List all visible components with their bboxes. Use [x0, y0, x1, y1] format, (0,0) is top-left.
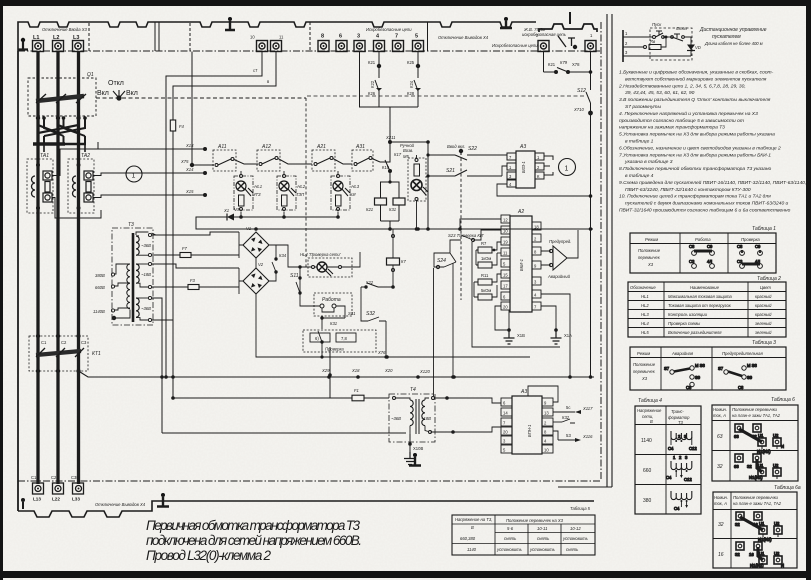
SECTION: disconnect contacts KT1 on buses [29, 334, 594, 377]
svg-text:5кОм: 5кОм [481, 288, 491, 293]
A2 body [510, 216, 532, 312]
svg-text:14: 14 [503, 411, 508, 416]
wire from terminal 3 down [360, 52, 419, 108]
svg-text:32: 32 [735, 522, 740, 527]
T3 secondary winding w1 [136, 236, 139, 255]
svg-text:Наименование: Наименование [690, 285, 720, 290]
svg-text:Х78: Х78 [572, 62, 580, 67]
svg-text:С8: С8 [737, 244, 743, 249]
divider x=310 [309, 22, 311, 51]
svg-text:~36В: ~36В [141, 243, 151, 248]
switch S11 [296, 278, 300, 293]
svg-text:L22: L22 [52, 497, 60, 502]
svg-text:16: 16 [753, 522, 758, 527]
A3 right pins [535, 153, 544, 160]
junction bar to TA row [33, 142, 65, 146]
enclosure top edge with comb notches [18, 22, 536, 51]
node circle 1 right [559, 159, 576, 176]
crossover wiring below Q1 [38, 116, 79, 142]
svg-text:19: 19 [503, 240, 508, 245]
wire rc-1 [623, 37, 691, 56]
branch verticals with swap [44, 118, 85, 136]
svg-text:5З: 5З [566, 433, 571, 438]
TA secondary wires to X13 X14 X15 [52, 142, 205, 218]
svg-text:Предупредительная: Предупредительная [722, 351, 763, 356]
svg-text:~36В: ~36В [391, 416, 401, 421]
svg-text:А11: А11 [217, 144, 227, 150]
resistor R HL2 [282, 195, 288, 206]
svg-text:Х1В: Х1В [517, 333, 525, 338]
unit A11 dashed box [213, 150, 236, 171]
divider dashed x=89 [88, 23, 90, 51]
svg-text:С1В: С1В [31, 475, 39, 480]
LED HL2 [279, 181, 289, 191]
svg-text:32: 32 [752, 434, 757, 439]
svg-text:10-12: 10-12 [570, 526, 581, 531]
lamp HL1 dash-dot box [234, 176, 253, 210]
SECTION: remote control circuit top right [623, 28, 695, 62]
svg-text:Х1: Х1 [223, 208, 229, 213]
terminal L13 [33, 483, 44, 494]
svg-text:Номин.: Номин. [713, 407, 727, 412]
svg-text:HL2: HL2 [641, 303, 649, 308]
T4 primary coil [393, 397, 396, 400]
table6 row 63 jumper sketch [734, 424, 784, 454]
svg-text:63: 63 [734, 434, 739, 439]
svg-text:С12: С12 [684, 477, 692, 482]
svg-text:L2: L2 [53, 35, 59, 41]
alarm output triangle [553, 246, 567, 270]
svg-text:Максимальная токовая защита: Максимальная токовая защита [668, 294, 732, 299]
bridge input wires [239, 232, 243, 255]
svg-text:Проверка схемы: Проверка схемы [668, 321, 700, 326]
svg-text:S7: S7 [664, 366, 670, 371]
wire from bus3 to long bus [79, 371, 595, 377]
A2 right wires to triangle [541, 251, 551, 265]
svg-text:Х15: Х15 [185, 189, 194, 194]
wire y=432 long [162, 432, 406, 434]
svg-text:HL5: HL5 [641, 330, 649, 335]
svg-text:красный: красный [755, 303, 772, 308]
svg-text:L13: L13 [33, 497, 41, 502]
wire w2 top [152, 264, 239, 268]
SECTION: bottom-left cable entry [18, 14, 612, 517]
lamp HL2 dash-dot box [277, 176, 296, 210]
svg-text:Х120: Х120 [419, 369, 430, 374]
svg-text:на план-е зажи ТА1, ТА2: на план-е зажи ТА1, ТА2 [733, 501, 782, 506]
A31 contact [354, 163, 357, 166]
A3 body [516, 151, 535, 188]
output wire from bridges to right [256, 226, 300, 245]
SECTION: relay K7 and contacts right [355, 229, 400, 347]
svg-text:U1: U1 [759, 521, 765, 526]
svg-text:20: 20 [503, 305, 508, 310]
cabinet bottom dash-dot wall [18, 480, 601, 482]
svg-text:С3В: С3В [71, 475, 79, 480]
transformer T4 dashed box [389, 394, 435, 442]
svg-text:Проверка: Проверка [325, 347, 344, 352]
svg-text:К32: К32 [562, 415, 570, 420]
wires A3 right to node 1 [544, 156, 553, 175]
svg-text:Дистанционное управление: Дистанционное управление [699, 27, 767, 33]
SECTION: indicator lamps HL1-HL3 [196, 171, 593, 231]
A3b right pins [542, 398, 553, 453]
svg-text:В: В [650, 419, 653, 424]
svg-text:20: 20 [503, 430, 508, 435]
svg-text:R7: R7 [481, 241, 487, 246]
SECTION: auxiliary circuit terminals 10 11 [164, 41, 281, 400]
A2 right pin boxes [532, 222, 541, 310]
hanger symbol top right-middle [500, 17, 512, 28]
svg-text:К34: К34 [279, 253, 287, 258]
resistor pair lower [478, 279, 492, 285]
bus L3 wire [77, 52, 80, 485]
SECTION: signal lamp M5 and switches S21 S22 [390, 140, 507, 300]
SECTION: long horizontal buses [327, 375, 456, 379]
svg-text:пускателем: пускателем [712, 34, 741, 40]
svg-text:1кОм: 1кОм [481, 256, 491, 261]
hanger on dashdot wall [409, 453, 421, 466]
svg-text:Транс-: Транс- [671, 409, 684, 414]
ground-lug symbol left [19, 38, 29, 50]
svg-text:F7: F7 [182, 246, 188, 251]
svg-text:Режим: Режим [637, 351, 650, 356]
terminal L33 [73, 483, 84, 494]
svg-text:11: 11 [279, 35, 284, 40]
svg-text:К31: К31 [389, 207, 396, 212]
bridge outputs [255, 258, 257, 268]
wire w3 top [152, 292, 239, 298]
wire w1 bottom through fuse F7 [152, 254, 180, 256]
enclosure bottom comb strip [18, 501, 594, 517]
svg-text:М S8: М S8 [695, 363, 705, 368]
LED HL4 [317, 262, 327, 272]
svg-text:Отключение Выводов Х4: Отключение Выводов Х4 [438, 35, 489, 40]
svg-text:6.Обозначение, назначение и цв: 6.Обозначение, назначение и цвет светоди… [619, 145, 781, 151]
svg-text:Аварийный: Аварийный [547, 274, 571, 279]
svg-text:Положение: Положение [633, 362, 656, 367]
SECTION: right side feeder wire [307, 52, 593, 379]
svg-text:Пуск: Пуск [652, 22, 662, 27]
svg-text:7.Установка перемычек на Х3 дл: 7.Установка перемычек на Х3 для выбора р… [619, 152, 771, 158]
svg-text:Х18: Х18 [351, 368, 360, 373]
svg-text:-HL1: -HL1 [253, 184, 262, 189]
Q1 moving contact bar [36, 96, 84, 101]
wire X75 feed [192, 52, 214, 166]
wire y=398 from left [330, 347, 352, 398]
svg-text:Таблица 5: Таблица 5 [570, 506, 591, 511]
Q1 linkage dash line to handle [96, 97, 306, 99]
svg-text:S7 разомкнуты: S7 разомкнуты [625, 104, 661, 110]
SECTION: check circuit HL4 [256, 242, 560, 396]
wire from S21 area down right side [389, 229, 393, 287]
svg-text:Х710: Х710 [573, 107, 584, 112]
svg-text:Отключение Ввода Х3: Отключение Ввода Х3 [42, 27, 87, 32]
svg-text:380: 380 [643, 498, 652, 504]
svg-text:Х14: Х14 [185, 167, 194, 172]
svg-text:16: 16 [718, 552, 724, 558]
button Пуск [653, 36, 656, 39]
svg-text:5.Установка перемычек на Х3 дл: 5.Установка перемычек на Х3 для выбора р… [619, 132, 775, 138]
wire from left bottom bus to T4 [173, 397, 352, 399]
svg-text:Аварийная: Аварийная [671, 351, 694, 356]
svg-text:К22: К22 [366, 280, 374, 285]
svg-text:Q1: Q1 [87, 72, 94, 78]
TA2 primary coil [73, 176, 77, 197]
svg-text:К25: К25 [407, 60, 415, 65]
SECTION: middle top terminals X4 [318, 41, 424, 52]
SECTION: current transformers [27, 142, 207, 218]
lamp HL3 dash-dot box [331, 176, 350, 210]
svg-text:63: 63 [734, 464, 739, 469]
contact K32 [562, 419, 575, 423]
HL4 dashed box [308, 258, 352, 277]
M5 LED [411, 180, 422, 191]
svg-text:указана в таблице 3: указана в таблице 3 [624, 159, 673, 165]
fuse F4 [170, 120, 175, 131]
svg-text:на план-е зажи ТА1, ТА2: на план-е зажи ТА1, ТА2 [732, 413, 781, 418]
svg-text:U1: U1 [758, 433, 764, 438]
svg-text:S23 'Проверка КИ': S23 'Проверка КИ' [448, 233, 484, 238]
A3b body [512, 396, 542, 454]
wires from top-right terminals down [544, 52, 591, 73]
svg-text:32: 32 [735, 552, 740, 557]
wire w3 bottom down [152, 320, 173, 398]
svg-text:F1: F1 [354, 388, 359, 393]
svg-text:18: 18 [534, 225, 539, 230]
table6a row 32 jumper sketch [735, 512, 782, 542]
svg-text:V7: V7 [234, 207, 240, 212]
svg-text:3.В положении разъединителя Q: 3.В положении разъединителя Q 'Откл' кон… [619, 97, 771, 103]
svg-text:1: 1 [132, 173, 136, 180]
svg-text:HL1: HL1 [641, 294, 649, 299]
rc dashed box [650, 28, 692, 60]
table1 jumper diagram work mode [689, 244, 762, 268]
svg-text:-HL3: -HL3 [350, 184, 360, 189]
svg-text:А12: А12 [261, 144, 271, 150]
S12 mech dashes [307, 95, 586, 97]
T4 secondary top wire [435, 398, 461, 432]
mech link dashed vertical [460, 158, 462, 300]
svg-text:С4: С4 [674, 506, 680, 511]
svg-text:БЛЗ-1: БЛЗ-1 [521, 161, 526, 173]
svg-text:10-11: 10-11 [537, 526, 547, 531]
pushbutton symbol between right terminals [558, 36, 575, 47]
T3 secondary terminals [136, 232, 156, 322]
svg-text:А21: А21 [316, 144, 326, 150]
contact K31 below [318, 318, 322, 342]
svg-text:Ввод вкл.: Ввод вкл. [447, 144, 465, 149]
contact K22 [361, 286, 393, 288]
handwritten annotation bottom [146, 518, 362, 563]
rc left vertical [622, 30, 624, 62]
svg-text:К26: К26 [368, 91, 376, 96]
svg-text:КИ: КИ [350, 192, 355, 197]
ground symbol left [504, 330, 515, 344]
svg-text:13: 13 [544, 411, 549, 416]
T3 secondary winding w3 [136, 298, 139, 317]
TA1 secondary block [43, 171, 52, 202]
svg-text:9.Схема приведена для пускател: 9.Схема приведена для пускателей ПВИТ-16… [619, 179, 806, 186]
svg-text:зеленый: зеленый [754, 330, 772, 335]
svg-text:С2В: С2В [51, 475, 59, 480]
A3b top-right loop wire [539, 375, 562, 402]
ground symbol right [551, 330, 562, 344]
current transformer TA2 dashed box [68, 159, 94, 213]
svg-text:К10: К10 [382, 165, 390, 170]
unit A31 dashed box [352, 150, 373, 171]
svg-text:ПВИТ-63/3240, ПВИТ-32/1640 с: ПВИТ-63/3240, ПВИТ-32/1640 с контактором… [625, 187, 751, 193]
svg-text:Х116: Х116 [582, 434, 593, 439]
svg-text:К17: К17 [394, 152, 402, 157]
svg-text:2.Незадействованные цепи 1, 2,: 2.Незадействованные цепи 1, 2, 34, 5, 6,… [618, 82, 746, 89]
table4 winding sketch 660 [666, 455, 692, 482]
wires to relay coils [381, 171, 400, 198]
relay coil K21 [375, 198, 387, 205]
disconnector Q1 dashed box [28, 78, 96, 116]
terminal X right-1 [538, 36, 596, 52]
bus L1 wire [36, 52, 39, 485]
svg-text:S31: S31 [348, 311, 355, 316]
wire box down to X211 [389, 107, 391, 142]
svg-text:установить: установить [496, 547, 522, 552]
bridge V2 [243, 268, 269, 294]
svg-text:Т3: Т3 [128, 222, 134, 228]
relay coil K7 [392, 229, 394, 258]
svg-text:Х1А: Х1А [564, 333, 572, 338]
svg-text:L3: L3 [73, 35, 79, 41]
svg-text:660: 660 [643, 468, 652, 474]
svg-text:Таблица 6: Таблица 6 [771, 397, 795, 403]
SECTION: Q1 lower branch wires [38, 116, 87, 152]
wire w1 top [152, 232, 239, 235]
svg-text:БКИ-1: БКИ-1 [519, 259, 524, 271]
svg-text:39, 43,44, 45, 53, 60, 61, 62,: 39, 43,44, 45, 53, 60, 61, 62, 90 [625, 90, 695, 96]
svg-text:снять: снять [537, 536, 549, 541]
node circle 1 left [126, 166, 142, 182]
svg-text:S12: S12 [577, 88, 586, 94]
svg-text:Первичная обмотка трансформато: Первичная обмотка трансформатора Т3 [146, 518, 360, 533]
wire w2 bottom through fuse F3 [152, 286, 188, 288]
svg-text:Режим: Режим [645, 237, 658, 242]
terminal X4-8 [318, 41, 329, 52]
svg-text:Х29: Х29 [321, 368, 330, 373]
X211 wire right [390, 142, 428, 155]
svg-text:Т4: Т4 [410, 387, 416, 393]
svg-text:6): 6) [315, 336, 319, 341]
svg-text:И1(И2): И1(И2) [750, 563, 764, 568]
relay coil K31 [393, 198, 405, 205]
wire to X76 bus [322, 342, 530, 357]
svg-text:Откл: Откл [108, 80, 124, 87]
svg-text:А31: А31 [355, 144, 365, 150]
svg-text:К22: К22 [370, 80, 375, 88]
svg-text:М S8: М S8 [747, 363, 757, 368]
SECTION: protection unit row A11-A31 [190, 52, 390, 172]
T3 dash-dot box [112, 228, 153, 325]
SECTION: left power buses [18, 51, 306, 511]
svg-text:Положение перемычки: Положение перемычки [732, 407, 778, 412]
terminal X4-4 [374, 41, 385, 52]
svg-text:С4: С4 [666, 475, 672, 480]
svg-text:Длина кабеля не более 400 м: Длина кабеля не более 400 м [704, 41, 763, 46]
resistor Rв [644, 46, 647, 49]
current transformer TA1 dashed box [27, 159, 53, 213]
SECTION: block A2 (БКИ) [434, 215, 593, 379]
wire A2 pin top right [541, 225, 593, 227]
svg-text:подключена для сетей напряжени: подключена для сетей напряжением 660В. [146, 533, 362, 548]
wire terminal10 to left drop [166, 52, 262, 378]
contact K34 [269, 245, 276, 281]
Q1 handle node [116, 95, 121, 100]
table4 winding sketch 380 [671, 491, 692, 511]
svg-text:Положение: Положение [638, 248, 661, 253]
svg-text:U2: U2 [774, 551, 780, 556]
svg-text:ток, А: ток, А [714, 501, 727, 506]
svg-text:Х3: Х3 [641, 376, 648, 381]
svg-text:Т3: Т3 [678, 420, 684, 425]
svg-text:Таблица 6а: Таблица 6а [774, 485, 801, 491]
svg-text:10. Подключение цепей к трансф: 10. Подключение цепей к трансформаторам … [619, 193, 771, 200]
svg-text:Искробезопасные цепи: Искробезопасные цепи [366, 27, 412, 32]
coil outputs to bus [381, 205, 400, 229]
svg-text:К21: К21 [548, 62, 556, 67]
svg-text:Контроль изоляции: Контроль изоляции [668, 312, 708, 317]
hanger symbol top middle [225, 17, 235, 30]
unit A21 dashed box [312, 150, 335, 171]
SECTION: notes text [618, 70, 806, 214]
A3b right outputs [553, 411, 575, 413]
svg-text:Х20: Х20 [384, 368, 393, 373]
svg-text:5с: 5с [566, 405, 570, 410]
svg-text:7,8: 7,8 [341, 336, 347, 341]
dash-dot line under terminals (cabinet boundary) [18, 50, 600, 52]
hanger on base rail [157, 493, 169, 507]
svg-text:С12: С12 [689, 446, 697, 451]
svg-text:U1: U1 [759, 551, 765, 556]
svg-text:8: 8 [321, 34, 324, 40]
lamp bottom bus [241, 216, 338, 218]
mode box Proverka [303, 330, 376, 352]
SECTION: K2x chains under X4 terminals [360, 52, 422, 143]
svg-text:R11: R11 [481, 273, 489, 278]
svg-text:Вкл: Вкл [97, 90, 109, 97]
svg-text:К7: К7 [401, 259, 406, 264]
svg-text:660,380: 660,380 [460, 536, 476, 541]
svg-text:С3: С3 [689, 259, 695, 264]
svg-text:17: 17 [503, 284, 508, 289]
svg-text:HL4 'Проверка сети': HL4 'Проверка сети' [300, 252, 341, 257]
svg-text:Возв.: Возв. [403, 148, 413, 153]
terminal X right-2 [585, 41, 596, 52]
fuse F7 [180, 253, 191, 258]
svg-text:5-6: 5-6 [507, 526, 514, 531]
switch S31 [336, 306, 345, 318]
A12 contact [259, 163, 262, 166]
table4 winding sketch 1140 [668, 431, 697, 451]
svg-text:Х3: Х3 [647, 262, 654, 267]
SECTION: block A3 top (БЛЗ-1) [490, 151, 591, 196]
X710 node [588, 111, 593, 116]
svg-text:Токовая защита от перегрузок: Токовая защита от перегрузок [668, 303, 732, 308]
svg-text:установить: установить [562, 536, 588, 541]
svg-text:А3: А3 [520, 389, 527, 395]
LED HL1 [236, 181, 246, 191]
svg-text:1140: 1140 [641, 438, 652, 444]
svg-text:Положение перемычки: Положение перемычки [733, 495, 779, 500]
svg-text:Таблица 1: Таблица 1 [752, 226, 776, 232]
M5 resistor [414, 164, 420, 176]
